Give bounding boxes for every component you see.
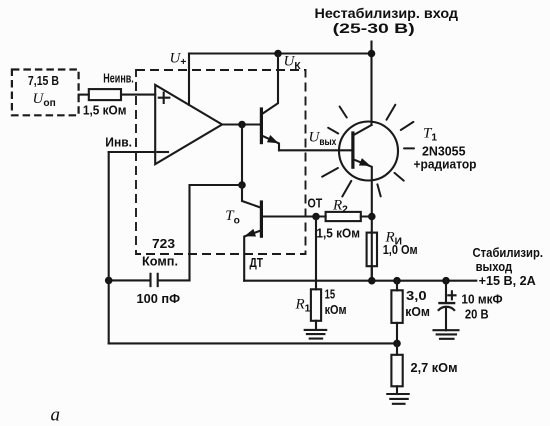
ground below output cap bbox=[434, 330, 459, 339]
op-amp + input mark bbox=[159, 93, 170, 103]
node: op-amp output junction bbox=[238, 121, 246, 129]
wire: reference box to resistor bbox=[79, 94, 89, 96]
svg-text:1,5 кОм: 1,5 кОм bbox=[83, 103, 127, 118]
ground below 2,7 кОм bbox=[387, 394, 408, 404]
transistor T1 emitter arrow bbox=[359, 158, 372, 170]
wire: R1 drop from ОТ node bbox=[315, 217, 317, 290]
svg-text:1,5 кОм: 1,5 кОм bbox=[316, 226, 360, 241]
wire: U_вых line to T1 base bbox=[279, 149, 353, 151]
transistor T1 emitter bbox=[354, 160, 371, 281]
wire: resistor to op-amp + input bbox=[121, 94, 155, 96]
svg-text:+радиатор: +радиатор bbox=[414, 157, 477, 172]
wire: 3,0 кОм top lead bbox=[396, 281, 398, 291]
wire: R2 leads bbox=[316, 215, 372, 217]
transistor Q3 (Т_о current limiter) base bar bbox=[260, 202, 263, 236]
op-amp - input mark bbox=[158, 151, 169, 153]
wire: output line bbox=[244, 280, 476, 282]
svg-text:Стабилизир.: Стабилизир. bbox=[473, 245, 544, 260]
svg-text:а: а bbox=[51, 405, 61, 426]
node: input junction bbox=[368, 50, 376, 58]
svg-text:ДТ: ДТ bbox=[250, 255, 264, 270]
wire: op-amp output bbox=[222, 123, 260, 125]
reference source dashed box bbox=[12, 70, 79, 116]
wire: left feedback rail bbox=[108, 152, 110, 343]
capacitor C1 100 пФ plates bbox=[151, 273, 158, 287]
resistor R1 body bbox=[311, 289, 321, 321]
node: divider midpoint junction bbox=[393, 340, 401, 348]
transistor Q2 collector bbox=[262, 54, 278, 114]
wire: inverting input bbox=[109, 151, 155, 153]
wire: top supply rail bbox=[189, 52, 372, 54]
wire: 2,7 кОм to ground bbox=[396, 386, 398, 394]
transistor Q3 emitter bbox=[244, 231, 260, 281]
svg-text:7,15 В: 7,15 В bbox=[28, 73, 59, 88]
resistor 1,5 кОм (non-inverting input) bbox=[89, 89, 121, 100]
wire: output cap to ground bbox=[445, 309, 447, 331]
node: R_И bottom junction bbox=[368, 277, 376, 285]
wire: 2,7 кОм top lead bbox=[396, 343, 398, 354]
node: U_K junction bbox=[274, 50, 282, 58]
svg-text:+15 В, 2А: +15 В, 2А bbox=[479, 273, 537, 288]
wire: output cap top lead bbox=[445, 281, 447, 303]
wire: Q3 base to ОТ node bbox=[263, 215, 316, 217]
wire: unregulated input drop to T1 collector bbox=[370, 42, 372, 126]
wire: R_И bottom lead bbox=[371, 266, 373, 281]
wire: U+ supply to op-amp bbox=[188, 54, 190, 105]
resistor 2,7 кОм body bbox=[391, 355, 402, 387]
wire: R1 to ground bbox=[315, 321, 317, 330]
wire: bottom feedback rail bbox=[109, 342, 397, 344]
op-amp U1 (723 error amplifier) bbox=[155, 85, 222, 164]
wire: branch left from Q3 collector bbox=[190, 185, 243, 280]
node: comp cap tap on feedback rail bbox=[105, 277, 113, 285]
transistor T1 collector bbox=[354, 125, 371, 135]
transistor Q3 emitter arrow bbox=[243, 229, 256, 240]
transistor Q2 emitter arrow bbox=[267, 135, 280, 147]
node: Q3 collector junction bbox=[238, 181, 246, 189]
node: divider top junction bbox=[393, 277, 401, 285]
transistor T1 2N3055 circle bbox=[339, 122, 398, 181]
svg-text:1,0 Ом: 1,0 Ом bbox=[383, 242, 418, 257]
node: R2 / emitter junction bbox=[368, 213, 376, 221]
svg-text:кОм: кОм bbox=[405, 304, 430, 319]
node: ОТ junction bbox=[312, 213, 320, 221]
svg-text:100 пФ: 100 пФ bbox=[137, 291, 181, 306]
svg-text:Комп.: Комп. bbox=[142, 254, 178, 269]
capacitor C2 polarity + bbox=[448, 291, 455, 299]
IC 723 dashed boundary box bbox=[136, 70, 306, 254]
resistor 3,0 кОм body bbox=[391, 290, 402, 323]
transistor T1 base bar bbox=[351, 133, 354, 167]
svg-text:Неинв.: Неинв. bbox=[103, 71, 134, 86]
node: output cap junction bbox=[442, 277, 450, 285]
transistor Q3 collector bbox=[242, 185, 261, 208]
svg-text:(25-30 В): (25-30 В) bbox=[333, 20, 415, 36]
resistor R2 body bbox=[326, 212, 361, 221]
svg-text:723: 723 bbox=[152, 236, 175, 251]
transistor Q2 (723 series driver) base bar bbox=[260, 109, 263, 143]
svg-text:кОм: кОм bbox=[325, 302, 347, 317]
wire: op-amp output down to Q3 collector bbox=[241, 125, 243, 186]
svg-text:2,7 кОм: 2,7 кОм bbox=[411, 360, 458, 375]
capacitor C2 10 мкФ plates bbox=[438, 302, 455, 304]
wire: comp cap left lead bbox=[109, 279, 150, 281]
svg-text:15: 15 bbox=[325, 287, 336, 302]
wire: 3,0 кОм bottom lead bbox=[396, 323, 398, 344]
heat rays around T1 bbox=[322, 105, 414, 197]
svg-text:ОТ: ОТ bbox=[308, 196, 323, 211]
transistor Q2 emitter bbox=[262, 136, 279, 151]
ground below R1 bbox=[305, 330, 327, 339]
svg-text:Инв.: Инв. bbox=[105, 135, 132, 150]
resistor R_И body bbox=[367, 233, 377, 267]
wire: comp cap right lead bbox=[158, 279, 189, 281]
svg-text:10 мкФ: 10 мкФ bbox=[461, 292, 502, 307]
svg-text:20 В: 20 В bbox=[465, 307, 489, 322]
svg-text:выход: выход bbox=[476, 259, 513, 274]
svg-text:Нестабилизир. вход: Нестабилизир. вход bbox=[315, 5, 459, 21]
svg-text:3,0: 3,0 bbox=[406, 288, 427, 303]
